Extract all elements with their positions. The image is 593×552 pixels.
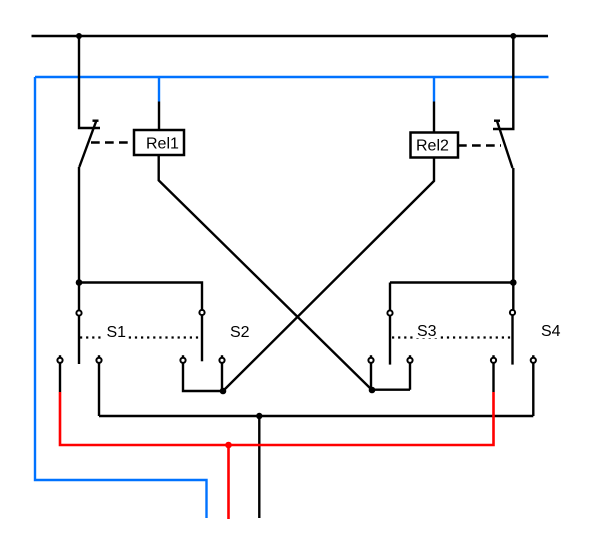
svg-text:S2: S2: [230, 324, 250, 341]
svg-text:S1: S1: [107, 324, 127, 341]
svg-text:Rel2: Rel2: [416, 138, 449, 155]
svg-text:S4: S4: [541, 323, 561, 340]
svg-text:S3: S3: [417, 323, 437, 340]
svg-text:Rel1: Rel1: [146, 136, 179, 153]
